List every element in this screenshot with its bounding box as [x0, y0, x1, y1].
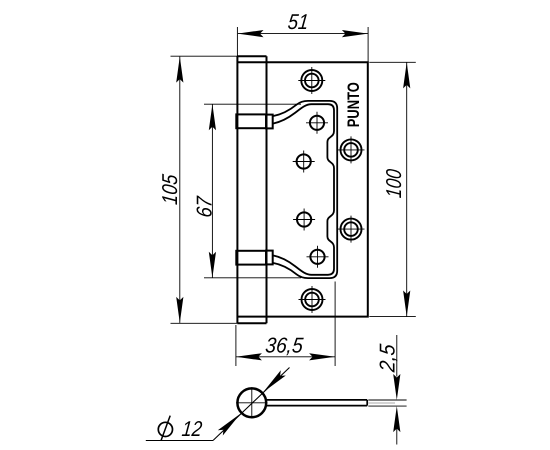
svg-text:67: 67: [192, 195, 217, 219]
svg-text:12: 12: [181, 416, 204, 441]
svg-text:105: 105: [157, 172, 182, 205]
svg-text:100: 100: [381, 168, 406, 199]
svg-text:2,5: 2,5: [374, 342, 399, 374]
svg-text:PUNTO: PUNTO: [345, 82, 363, 127]
svg-text:51: 51: [287, 9, 310, 34]
svg-text:36,5: 36,5: [264, 332, 305, 357]
